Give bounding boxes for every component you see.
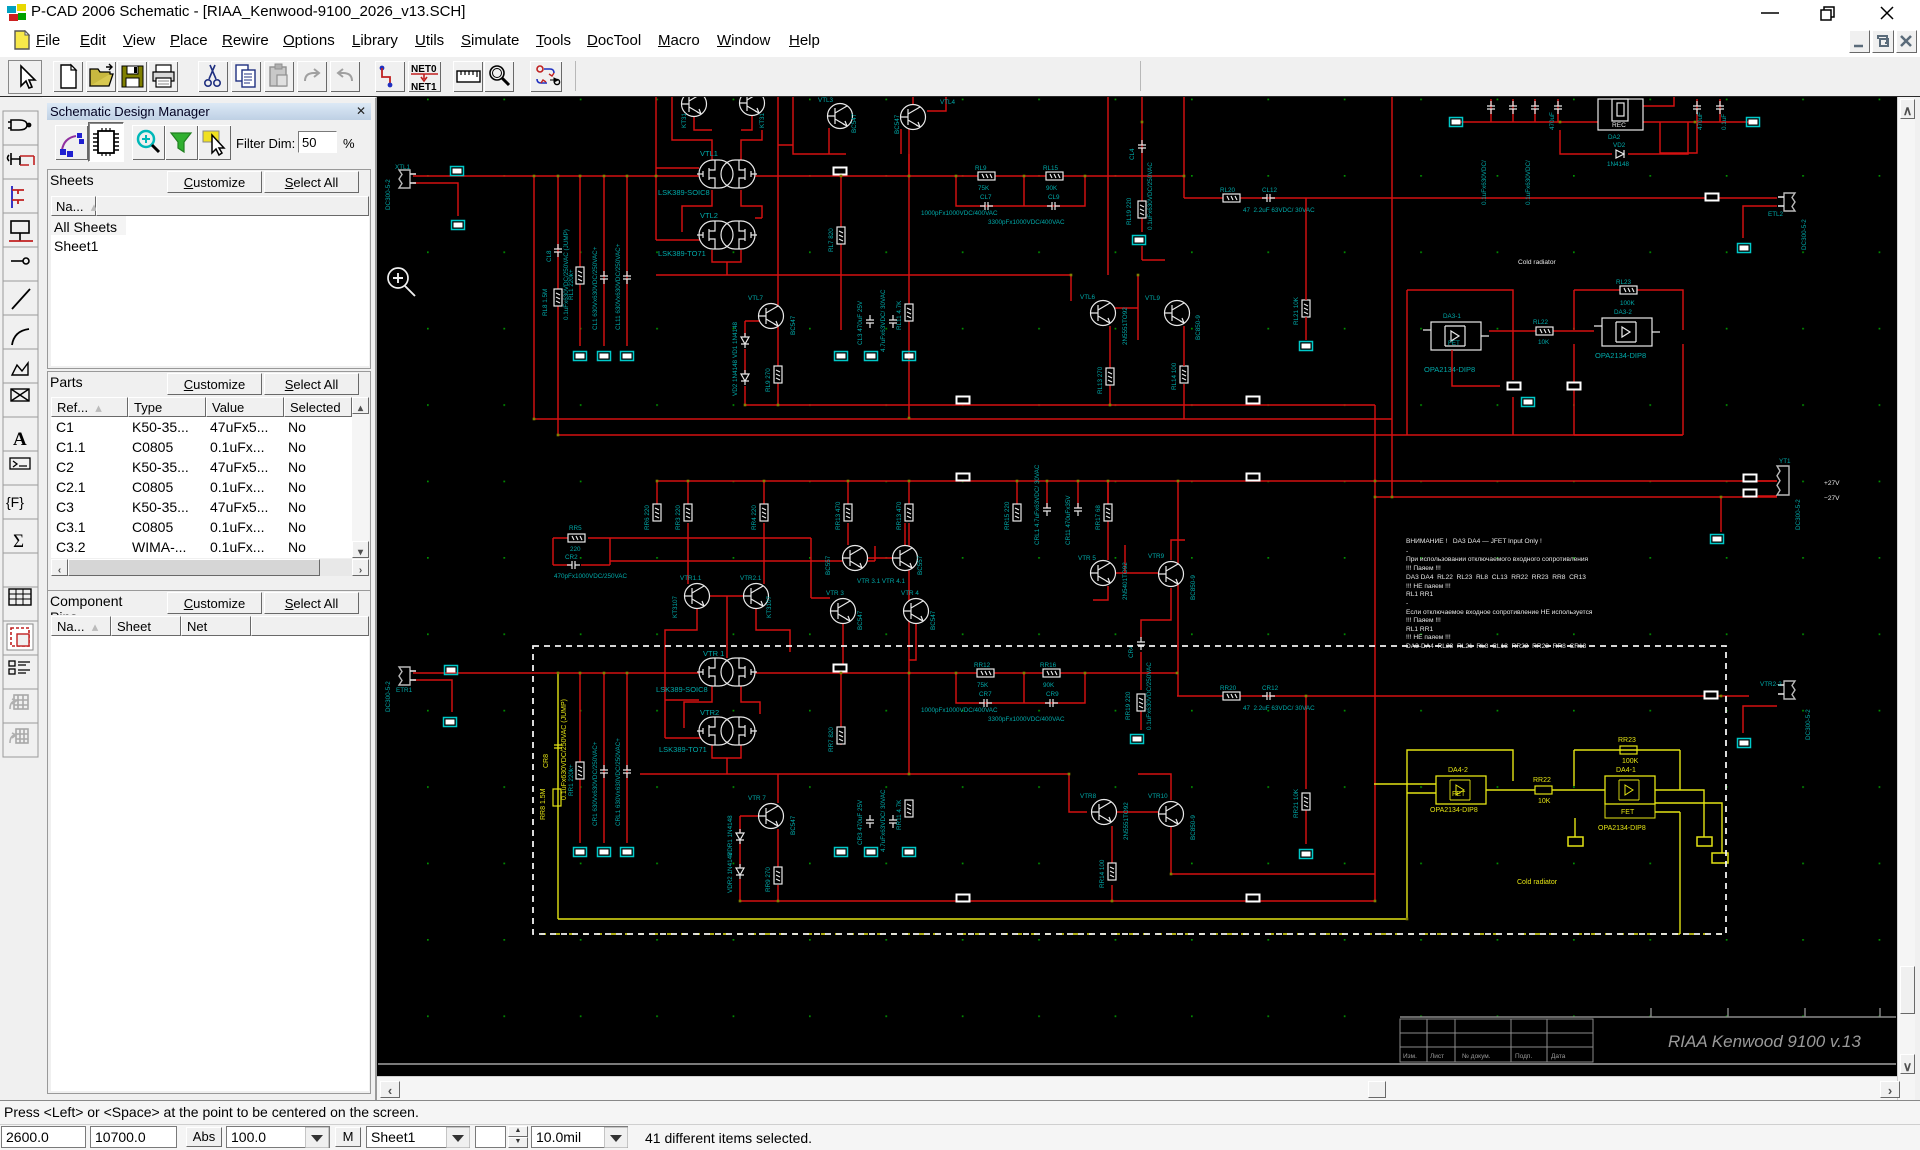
resistor RR13b (896, 501, 913, 530)
wire yellow gnd stub (1574, 818, 1576, 837)
wire VTL4 area (901, 97, 946, 176)
wire RC ladder ch2 (956, 673, 1085, 703)
svg-text:RR22: RR22 (1533, 777, 1551, 784)
svg-text:4.7uFx63VDC/ 30VAC: 4.7uFx63VDC/ 30VAC (880, 789, 887, 852)
svg-text:47 2.2uF 63VDC/ 30VAC: 47 2.2uF 63VDC/ 30VAC (1243, 207, 1315, 214)
svg-text:+27V: +27V (1824, 480, 1840, 487)
connector ETL2 (1768, 193, 1808, 250)
wire -27V rail (1375, 496, 1777, 498)
transistor VTR10 (1148, 793, 1197, 840)
capacitor CR3.1 (880, 789, 897, 852)
svg-text:0.1uFx630VDC/250VAC: 0.1uFx630VDC/250VAC (1146, 662, 1153, 730)
icon 7: arc (12, 329, 29, 345)
svg-text:LSK389-SOIC8: LSK389-SOIC8 (656, 685, 708, 694)
capacitor CL7 (980, 194, 993, 210)
resistor RL1 (568, 267, 584, 300)
port (621, 352, 634, 361)
resistor RR6 (644, 504, 661, 530)
svg-text:1N4148: 1N4148 (1607, 161, 1630, 168)
capacitor CR4 (1128, 637, 1153, 730)
svg-text:RR23: RR23 (1618, 737, 1636, 744)
wire VTR10 top (1138, 774, 1171, 800)
resistor RL22 (1489, 319, 1594, 346)
resistor RL9 (765, 366, 782, 392)
port net stub (1711, 535, 1724, 544)
wire x558 drop (557, 176, 559, 435)
jfet VTL2 (697, 211, 757, 249)
port (1246, 473, 1261, 482)
svg-text:RR21 10K: RR21 10K (1293, 788, 1300, 818)
svg-text:!!! НЕ паяем !!!: !!! НЕ паяем !!! (1406, 634, 1451, 641)
svg-text:DC300-5-2: DC300-5-2 (1805, 709, 1812, 740)
resistor RR17 (1095, 504, 1112, 530)
svg-text:CR9: CR9 (1046, 691, 1059, 698)
wire main input bus 2 (413, 672, 1177, 674)
svg-text:VTR10: VTR10 (1148, 793, 1168, 800)
svg-text:0.1uFx630VDC/: 0.1uFx630VDC/ (1481, 160, 1488, 205)
icon 1: part (8, 120, 31, 130)
svg-text:VD2: VD2 (1613, 142, 1626, 149)
capacitor C row 3 (1531, 101, 1539, 114)
wire rail y901 (740, 900, 1375, 902)
wire rail stubs ch2 (657, 481, 1108, 508)
resistor RR8 yellow (540, 788, 561, 820)
capacitor CL8 (546, 229, 570, 320)
wire ETL2 pin2 (1743, 206, 1777, 238)
svg-text:BC557: BC557 (825, 555, 832, 575)
resistor RR1 (568, 762, 584, 796)
svg-text:BC850-9: BC850-9 (1190, 575, 1197, 600)
svg-text:100K: 100K (1620, 300, 1636, 307)
svg-text:90K: 90K (1043, 682, 1055, 689)
svg-text:RR14 100: RR14 100 (1099, 859, 1106, 888)
wire input2 pin 2 (413, 680, 452, 712)
svg-text:DA3-2: DA3-2 (1614, 309, 1632, 316)
icon 4: port (9, 221, 33, 241)
svg-text:BC547: BC547 (857, 610, 864, 630)
svg-text:-: - (1406, 548, 1408, 555)
wire VTR5 vertical (1093, 481, 1108, 600)
svg-text:100K: 100K (1622, 758, 1639, 765)
svg-text:2N5401TO92: 2N5401TO92 (1122, 562, 1129, 600)
svg-text:RL1 RR1: RL1 RR1 (1406, 626, 1433, 633)
svg-text:RL15: RL15 (1043, 165, 1059, 172)
wire RR20 bus (1177, 695, 1749, 697)
resistor RR21 (1293, 788, 1310, 818)
wire RR18 chain (1111, 826, 1113, 901)
wire VTR9 collector (1171, 540, 1185, 560)
sheet border line upper (1400, 1008, 1896, 1017)
icon 15: selected red dashed (7, 624, 33, 650)
wire yellow right drop (1679, 812, 1681, 934)
title table (1400, 1019, 1593, 1062)
svg-text:BC547: BC547 (790, 315, 797, 335)
wire top vertical (1183, 97, 1185, 198)
svg-text:KT31: KT31 (759, 112, 766, 128)
resistor RL8 (542, 289, 562, 316)
capacitor C row 4 (1554, 101, 1562, 114)
svg-text:A: A (13, 429, 27, 450)
wire VTR7 vertical (777, 774, 779, 901)
transistor VTR3.1 (825, 546, 868, 576)
resistor RR5 (568, 525, 585, 553)
wire DA2 row left (1459, 121, 1598, 123)
transistor VTL6 (1080, 294, 1129, 345)
svg-text:RR13 470: RR13 470 (835, 501, 842, 530)
svg-text:CRL1 630Vx630VDC/250VAC+: CRL1 630Vx630VDC/250VAC+ (615, 738, 622, 826)
resistor RR12 (974, 662, 994, 689)
wire VTR3 base link (811, 597, 830, 599)
port (1743, 474, 1758, 483)
svg-text:RR13 470: RR13 470 (896, 501, 903, 530)
svg-text:VDR2 1N4148: VDR2 1N4148 (727, 852, 734, 893)
svg-text:BC850-9: BC850-9 (1195, 315, 1202, 340)
svg-text:RL19 220: RL19 220 (1126, 197, 1133, 225)
svg-text:470pFx1000VDC/250VAC: 470pFx1000VDC/250VAC (554, 573, 627, 580)
wire x909 vertical (908, 125, 910, 418)
capacitor CL9 (1047, 194, 1060, 210)
port (1738, 739, 1751, 748)
svg-text:VTR2: VTR2 (700, 708, 719, 717)
resistor RL20 (1220, 187, 1240, 202)
opamp DA3-2 (1594, 309, 1660, 360)
svg-text:RR9 270: RR9 270 (765, 867, 772, 892)
port on bus (833, 167, 848, 176)
wire VTR1.1 vertical (688, 523, 764, 584)
svg-text:NET1: NET1 (411, 82, 437, 92)
svg-text:REC: REC (1612, 122, 1626, 129)
svg-text:RL22: RL22 (1533, 319, 1549, 326)
svg-text:CL7: CL7 (980, 194, 992, 201)
svg-text:Лист: Лист (1430, 1053, 1444, 1060)
svg-text:ВНИМАНИЕ ! DA3 DA4 — JFET In: ВНИМАНИЕ ! DA3 DA4 — JFET Input Only ! (1406, 538, 1542, 545)
svg-text:{F}: {F} (6, 494, 24, 510)
capacitor CR2 (554, 554, 627, 580)
wire yellow outs (1655, 790, 1722, 853)
wire VTR8-VTR10 link (1117, 811, 1158, 813)
resistor RL18 (1097, 366, 1114, 394)
wire bus right to ETL2 (1184, 197, 1777, 199)
wire VTR5-VTR9 link (1116, 545, 1158, 573)
svg-text:10K: 10K (1538, 798, 1551, 805)
port (452, 221, 465, 230)
svg-text:1000pFx1000VDC/400VAC: 1000pFx1000VDC/400VAC (921, 707, 998, 714)
title table labels (1403, 1053, 1566, 1060)
diode VD1 (732, 321, 749, 358)
svg-text:3300pFx1000VDC/400VAC: 3300pFx1000VDC/400VAC (988, 219, 1065, 226)
icon 17/18: grayed (10, 695, 28, 709)
svg-text:3300pFx1000VDC/400VAC: 3300pFx1000VDC/400VAC (988, 716, 1065, 723)
wire VTR1 block left (665, 666, 704, 738)
wire +27V rail (657, 480, 1777, 482)
svg-text:RR7 820: RR7 820 (828, 727, 835, 752)
svg-text:RR6 220: RR6 220 (644, 505, 651, 530)
transistor VTR4 (901, 590, 937, 630)
capacitor CR11 (1065, 495, 1082, 545)
svg-text:0.1uFx630VDC/250VAC (JUMP): 0.1uFx630VDC/250VAC (JUMP) (561, 699, 568, 800)
wire x534 drop (533, 176, 535, 419)
wire VTR2-2 pin2 (1743, 706, 1777, 733)
MDI child buttons (1849, 30, 1870, 53)
svg-text:RR1 220k+: RR1 220k+ (568, 764, 575, 796)
svg-text:LSK389-SOIC8: LSK389-SOIC8 (658, 188, 710, 197)
wire VTR3/4 emitters (843, 624, 916, 673)
capacitor CL11 (615, 243, 631, 330)
capacitor CL3 (857, 300, 874, 345)
opamp DA4-2 (1430, 767, 1486, 814)
wire YT1 plus (1758, 480, 1777, 482)
capacitor C row 5 (1693, 101, 1701, 114)
wire VD2 loop (1560, 122, 1688, 154)
capacitor CL12 (1243, 187, 1315, 214)
port (574, 352, 587, 361)
svg-text:DC300-5-2: DC300-5-2 (1795, 499, 1802, 530)
svg-text:DA3-1: DA3-1 (1443, 313, 1461, 320)
svg-text:RR16: RR16 (1040, 662, 1057, 669)
svg-text:CL1 630Vx630VDC/250VAC+: CL1 630Vx630VDC/250VAC+ (592, 246, 599, 330)
svg-text:BC547: BC547 (894, 114, 901, 134)
wire VTL9 vertical (1183, 326, 1185, 419)
transistor VTR1.1 (672, 575, 710, 618)
capacitor C row 1 (1487, 101, 1495, 114)
wire VTR3.1 tops (848, 523, 905, 558)
svg-text:Cold radiator: Cold radiator (1518, 259, 1557, 266)
port (445, 666, 458, 675)
svg-text:RR20: RR20 (1220, 685, 1237, 692)
opamp DA4-1 (1598, 767, 1655, 832)
svg-text:BC850-9: BC850-9 (1190, 815, 1197, 840)
svg-text:75K: 75K (977, 682, 989, 689)
svg-text:2N5551TO92: 2N5551TO92 (1122, 307, 1129, 345)
capacitor CR9 (1045, 691, 1059, 707)
resistor RR20 (1220, 685, 1240, 700)
wire DA2 row right (1643, 121, 1749, 123)
transistor VTL4 (894, 99, 956, 134)
port on bus RR20 (1704, 691, 1719, 700)
svg-text:-: - (1406, 600, 1408, 607)
diode VD2r (1607, 142, 1630, 168)
capacitor CR7 (979, 691, 992, 707)
port (1747, 118, 1760, 127)
wire VTR8 branch (1069, 774, 1087, 812)
svg-text:LSK389-TO71: LSK389-TO71 (659, 745, 707, 754)
resistor RL7 (828, 227, 845, 252)
svg-text:CR2: CR2 (565, 554, 578, 561)
svg-text:BC547: BC547 (851, 113, 858, 133)
transistor VTR3 (826, 590, 864, 630)
port (598, 848, 611, 857)
diode VDR1 (727, 815, 744, 856)
port (598, 352, 611, 361)
svg-text:LSK389-TO71: LSK389-TO71 (658, 249, 706, 258)
svg-text:RL23: RL23 (1616, 279, 1632, 286)
icon 14: table (9, 589, 31, 605)
resistor RR13 (835, 501, 852, 530)
icon 6: line (12, 289, 30, 309)
svg-text:VTL9: VTL9 (1145, 295, 1161, 302)
wire VTL6 emitter chain (1109, 326, 1111, 405)
wire RL21 drop (1305, 198, 1307, 340)
port (956, 894, 971, 903)
wire yellow dash overlay bottom (541, 933, 1726, 935)
transistor VTR2.1 (740, 575, 773, 618)
svg-text:Дата: Дата (1551, 1053, 1566, 1060)
svg-text:RIAA Kenwood 9100 v.13: RIAA Kenwood 9100 v.13 (1668, 1032, 1861, 1051)
wire rail y419 (534, 418, 1392, 420)
svg-text:VTR1.1: VTR1.1 (680, 575, 702, 582)
wire RR7 drop (840, 673, 842, 745)
capacitor CR3 (857, 799, 874, 845)
port (1567, 382, 1582, 391)
svg-text:RR17 68: RR17 68 (1095, 505, 1102, 530)
port on bus right (1705, 193, 1720, 202)
wire mid bus y275 (656, 275, 1071, 301)
svg-text:YT1: YT1 (1779, 458, 1791, 465)
capacitor C row 2 (1509, 101, 1517, 114)
wire DA2 out up (1643, 97, 1674, 106)
port (1300, 850, 1313, 859)
connector XTL1 (385, 164, 416, 210)
transistor VTR8 (1080, 793, 1130, 840)
port yellow (1697, 837, 1712, 846)
svg-text:VTR2-2: VTR2-2 (1760, 681, 1782, 688)
wire rail y774 (640, 773, 1069, 775)
wire x1178 drop (1177, 481, 1179, 696)
svg-text:RR11 4.7K: RR11 4.7K (896, 799, 903, 830)
wire yellow RR23 loop (1574, 750, 1680, 790)
jfet VTR1 (697, 649, 757, 686)
port yellow (1712, 853, 1728, 863)
connector VTR2-2 (1760, 681, 1812, 740)
svg-text:Изм.: Изм. (1403, 1053, 1417, 1060)
wire yellow RR22 to DA4-1 (1552, 789, 1605, 791)
wire main input bus L (413, 175, 1184, 177)
wire rail y435 (558, 434, 1682, 436)
wire RR5 out upper (610, 538, 811, 598)
svg-text:VTR 4: VTR 4 (901, 590, 919, 597)
svg-text:47 2.2uF 63VDC/ 30VAC: 47 2.2uF 63VDC/ 30VAC (1243, 705, 1315, 712)
zoom cursor (388, 268, 415, 296)
svg-text:!!! Паяем !!!: !!! Паяем !!! (1406, 565, 1441, 572)
port (835, 352, 848, 361)
parts h scrollbar (51, 559, 369, 576)
diode VD2 (732, 359, 749, 396)
resistor RR23 yellow (1618, 737, 1639, 765)
svg-text:0.1uFx630VDC/250VAC: 0.1uFx630VDC/250VAC (1147, 162, 1154, 230)
svg-text:RR8 1.5M: RR8 1.5M (540, 788, 547, 820)
port (835, 848, 848, 857)
svg-text:RL20: RL20 (1220, 187, 1236, 194)
svg-text:CR8: CR8 (543, 754, 550, 768)
grid dots (377, 97, 1897, 1037)
icon 16: list (9, 661, 30, 674)
svg-text:RR3 220: RR3 220 (675, 505, 682, 530)
svg-text:CL11 630Vx630VDC/250VAC+: CL11 630Vx630VDC/250VAC+ (615, 243, 622, 330)
wire x1392 from top (1391, 97, 1393, 497)
wire RL7 drop (840, 176, 842, 330)
port (903, 848, 916, 857)
transistor VTR4.1 (857, 546, 924, 586)
resistor RR3 (675, 504, 692, 530)
svg-text:FET: FET (1448, 340, 1460, 347)
wire rail y405 (745, 404, 1375, 406)
svg-text:1000pFx1000VDC/400VAC: 1000pFx1000VDC/400VAC (921, 210, 998, 217)
port (1743, 489, 1758, 498)
svg-text:KT3107: KT3107 (766, 595, 773, 618)
transistor VTL9 (1145, 295, 1202, 340)
svg-text:OPA2134-DIP8: OPA2134-DIP8 (1595, 351, 1646, 360)
icon 3: bus (12, 186, 24, 208)
resistor RR22 yellow (1533, 777, 1552, 805)
red box DA3-1 (1407, 290, 1513, 435)
port (1450, 118, 1463, 127)
resistor RL11 (896, 300, 913, 330)
port (574, 848, 587, 857)
wire RR21 drop (1305, 696, 1307, 844)
resistor RR15 (1004, 501, 1021, 530)
svg-text:RL9 270: RL9 270 (765, 368, 772, 392)
port (444, 718, 457, 727)
svg-text:0.1uF: 0.1uF (1721, 114, 1728, 130)
port on bus2 (833, 664, 848, 673)
port (956, 396, 971, 405)
wire DA2 lower box (1660, 122, 1697, 153)
svg-text:DC300-5-2: DC300-5-2 (1801, 219, 1808, 250)
svg-text:OPA2134-DIP8: OPA2134-DIP8 (1424, 365, 1475, 374)
resistor RL15 (1043, 165, 1063, 192)
svg-text:VTL4: VTL4 (940, 99, 956, 106)
svg-text:BC547: BC547 (930, 610, 937, 630)
wire VTL7 vertical (777, 97, 779, 405)
svg-text:10K: 10K (1538, 339, 1550, 346)
svg-text:!!! Паяем !!!: !!! Паяем !!! (1406, 617, 1441, 624)
wire stub CL1 (603, 176, 605, 346)
svg-text:FET: FET (1621, 809, 1635, 816)
wire RC ladder ch1 (956, 176, 1085, 206)
svg-text:4.7uFx63VDC/ 30VAC: 4.7uFx63VDC/ 30VAC (880, 289, 887, 352)
wire VTR9 emitter chain (1141, 588, 1171, 730)
resistor RL19 (1126, 197, 1146, 225)
sheet border line lower (378, 1063, 1896, 1065)
svg-text:RL13 270: RL13 270 (1097, 366, 1104, 394)
wire VTL1 drains up (672, 120, 762, 160)
wire x909 ch2 vertical (908, 523, 910, 774)
svg-text:CR7: CR7 (979, 691, 992, 698)
port (865, 352, 878, 361)
svg-text:FET: FET (1452, 791, 1466, 798)
transistor VTR9 (1148, 553, 1197, 600)
wire VTL1 block left vertical (656, 97, 704, 240)
svg-text:RL14 100: RL14 100 (1171, 362, 1178, 390)
transistor VTR5 (1078, 555, 1129, 600)
wire DA2 cap stubs (1491, 99, 1720, 122)
svg-text:CR11 470uFx35V: CR11 470uFx35V (1065, 495, 1072, 545)
svg-text:DA4-1: DA4-1 (1616, 767, 1636, 774)
svg-text:BC557: BC557 (917, 555, 924, 575)
svg-text:RL1 RR1: RL1 RR1 (1406, 591, 1433, 598)
port (621, 848, 634, 857)
transistor VTR7 (748, 795, 797, 835)
capacitor CRL1b (615, 738, 631, 826)
jfet VTL1 (697, 149, 757, 188)
wire stub CR1 (603, 673, 605, 843)
svg-text:RL21 10K: RL21 10K (1293, 296, 1300, 325)
resistor RL14 (1171, 362, 1188, 390)
svg-text:VTR9: VTR9 (1148, 553, 1165, 560)
svg-text:CL8: CL8 (546, 250, 553, 262)
svg-text:OPA2134-DIP8: OPA2134-DIP8 (1598, 825, 1646, 832)
svg-text:CL9: CL9 (1048, 194, 1060, 201)
